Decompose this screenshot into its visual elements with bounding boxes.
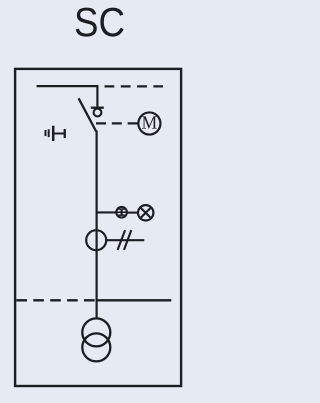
breaker fixed contact bar (91, 107, 104, 109)
transformer T1 secondary winding (82, 333, 110, 361)
lower dashed partition wire (16, 299, 95, 301)
busbar wire (37, 85, 99, 87)
secondary wire (106, 239, 144, 241)
dashed wire to motor operator (96, 122, 138, 124)
lower solid partition wire (97, 299, 172, 301)
indicator lamp X (141, 208, 150, 217)
busbar dashed wire (105, 85, 164, 87)
main vertical wire (95, 131, 97, 319)
breaker contact circle (94, 109, 102, 117)
current transformer circle (86, 230, 106, 250)
wire to voltage indicator (97, 211, 117, 213)
wire stub from busbar to breaker contact (96, 85, 98, 107)
indicator lamp circle (138, 205, 153, 220)
cubicle outline (15, 69, 181, 386)
motor letter M (142, 116, 157, 128)
voltage indicator plug circle (116, 207, 127, 218)
voltage indicator internal contact (116, 209, 128, 216)
conductor count slashes (118, 230, 132, 250)
earthing switch E1 (46, 126, 65, 141)
transformer T1 primary winding (82, 318, 110, 346)
switch blade (open) (79, 98, 97, 131)
wire between indicator and lamp (127, 212, 138, 214)
motor operator M circle (138, 112, 160, 134)
title SC (76, 8, 124, 37)
